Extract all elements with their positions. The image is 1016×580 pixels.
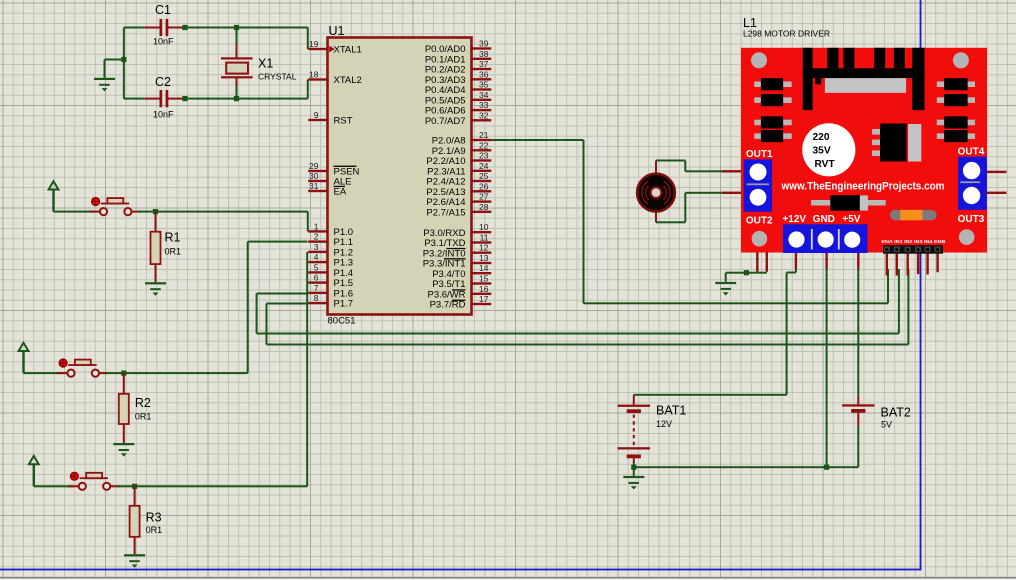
svg-text:33: 33 (479, 100, 489, 110)
svg-text:5V: 5V (881, 420, 892, 430)
svg-text:+5V: +5V (842, 214, 860, 225)
svg-text:21: 21 (479, 130, 489, 140)
svg-text:25: 25 (479, 171, 489, 181)
svg-text:6: 6 (314, 273, 319, 283)
svg-text:36: 36 (479, 69, 489, 79)
svg-text:10nF: 10nF (153, 37, 174, 47)
svg-text:RST: RST (334, 116, 353, 127)
svg-text:U1: U1 (329, 24, 345, 38)
svg-text:35: 35 (479, 80, 489, 90)
svg-text:38: 38 (479, 49, 489, 59)
svg-text:22: 22 (479, 140, 489, 150)
svg-text:OUT2: OUT2 (746, 216, 773, 227)
svg-text:27: 27 (479, 192, 489, 202)
svg-text:2: 2 (314, 232, 319, 242)
svg-text:26: 26 (479, 181, 489, 191)
svg-text:www.TheEngineeringProjects.com: www.TheEngineeringProjects.com (781, 180, 945, 192)
svg-text:30: 30 (309, 171, 319, 181)
svg-text:CRYSTAL: CRYSTAL (258, 72, 297, 82)
svg-text:R2: R2 (135, 396, 151, 410)
svg-text:24: 24 (479, 161, 489, 171)
svg-text:L1: L1 (743, 16, 757, 30)
svg-text:0R1: 0R1 (165, 247, 182, 257)
svg-text:220: 220 (813, 132, 830, 143)
svg-text:7: 7 (314, 283, 319, 293)
svg-text:34: 34 (479, 90, 489, 100)
svg-text:13: 13 (479, 253, 489, 263)
svg-text:XTAL2: XTAL2 (334, 75, 362, 86)
svg-text:P3.7/RD: P3.7/RD (430, 300, 466, 311)
svg-text:P1.7: P1.7 (334, 299, 354, 310)
svg-text:29: 29 (309, 161, 319, 171)
svg-text:5: 5 (314, 262, 319, 272)
svg-text:L298 MOTOR DRIVER: L298 MOTOR DRIVER (743, 30, 830, 39)
svg-text:28: 28 (479, 202, 489, 212)
svg-text:R3: R3 (146, 511, 162, 525)
svg-text:19: 19 (309, 39, 319, 49)
svg-text:OUT1: OUT1 (746, 149, 773, 160)
svg-text:RVT: RVT (815, 159, 836, 170)
svg-text:35V: 35V (813, 145, 831, 156)
svg-text:+12V: +12V (782, 214, 806, 225)
svg-text:C1: C1 (155, 3, 171, 17)
svg-text:1: 1 (314, 221, 319, 231)
svg-text:0R1: 0R1 (135, 412, 152, 422)
svg-text:17: 17 (479, 294, 489, 304)
svg-text:X1: X1 (258, 57, 273, 71)
svg-text:4: 4 (314, 252, 319, 262)
svg-text:BAT2: BAT2 (881, 406, 911, 420)
svg-text:R1: R1 (165, 231, 181, 245)
svg-text:ENA IN1 IN2 IN3 IN4 ENB: ENA IN1 IN2 IN3 IN4 ENB (881, 239, 946, 245)
svg-text:16: 16 (479, 284, 489, 294)
svg-text:3: 3 (314, 242, 319, 252)
svg-text:31: 31 (309, 181, 319, 191)
svg-text:BAT1: BAT1 (656, 404, 686, 418)
svg-text:OUT3: OUT3 (958, 214, 985, 225)
svg-text:GND: GND (813, 214, 835, 225)
svg-text:C2: C2 (155, 75, 171, 89)
svg-text:14: 14 (479, 263, 489, 273)
svg-text:12V: 12V (656, 419, 672, 429)
svg-text:EA: EA (334, 187, 347, 198)
svg-text:39: 39 (479, 39, 489, 49)
svg-text:32: 32 (479, 110, 489, 120)
svg-text:P2.7/A15: P2.7/A15 (426, 207, 465, 218)
svg-text:9: 9 (314, 110, 319, 120)
svg-text:10nF: 10nF (153, 110, 174, 120)
svg-text:23: 23 (479, 151, 489, 161)
svg-text:OUT4: OUT4 (958, 146, 985, 157)
svg-text:18: 18 (309, 70, 319, 80)
svg-text:XTAL1: XTAL1 (334, 45, 362, 56)
svg-text:80C51: 80C51 (328, 316, 356, 327)
svg-text:15: 15 (479, 274, 489, 284)
svg-text:8: 8 (314, 293, 319, 303)
svg-text:12: 12 (479, 243, 489, 253)
svg-text:11: 11 (480, 233, 489, 243)
svg-text:10: 10 (479, 222, 489, 232)
svg-text:37: 37 (479, 59, 489, 69)
svg-text:P0.7/AD7: P0.7/AD7 (425, 116, 466, 127)
svg-text:0R1: 0R1 (146, 525, 163, 535)
